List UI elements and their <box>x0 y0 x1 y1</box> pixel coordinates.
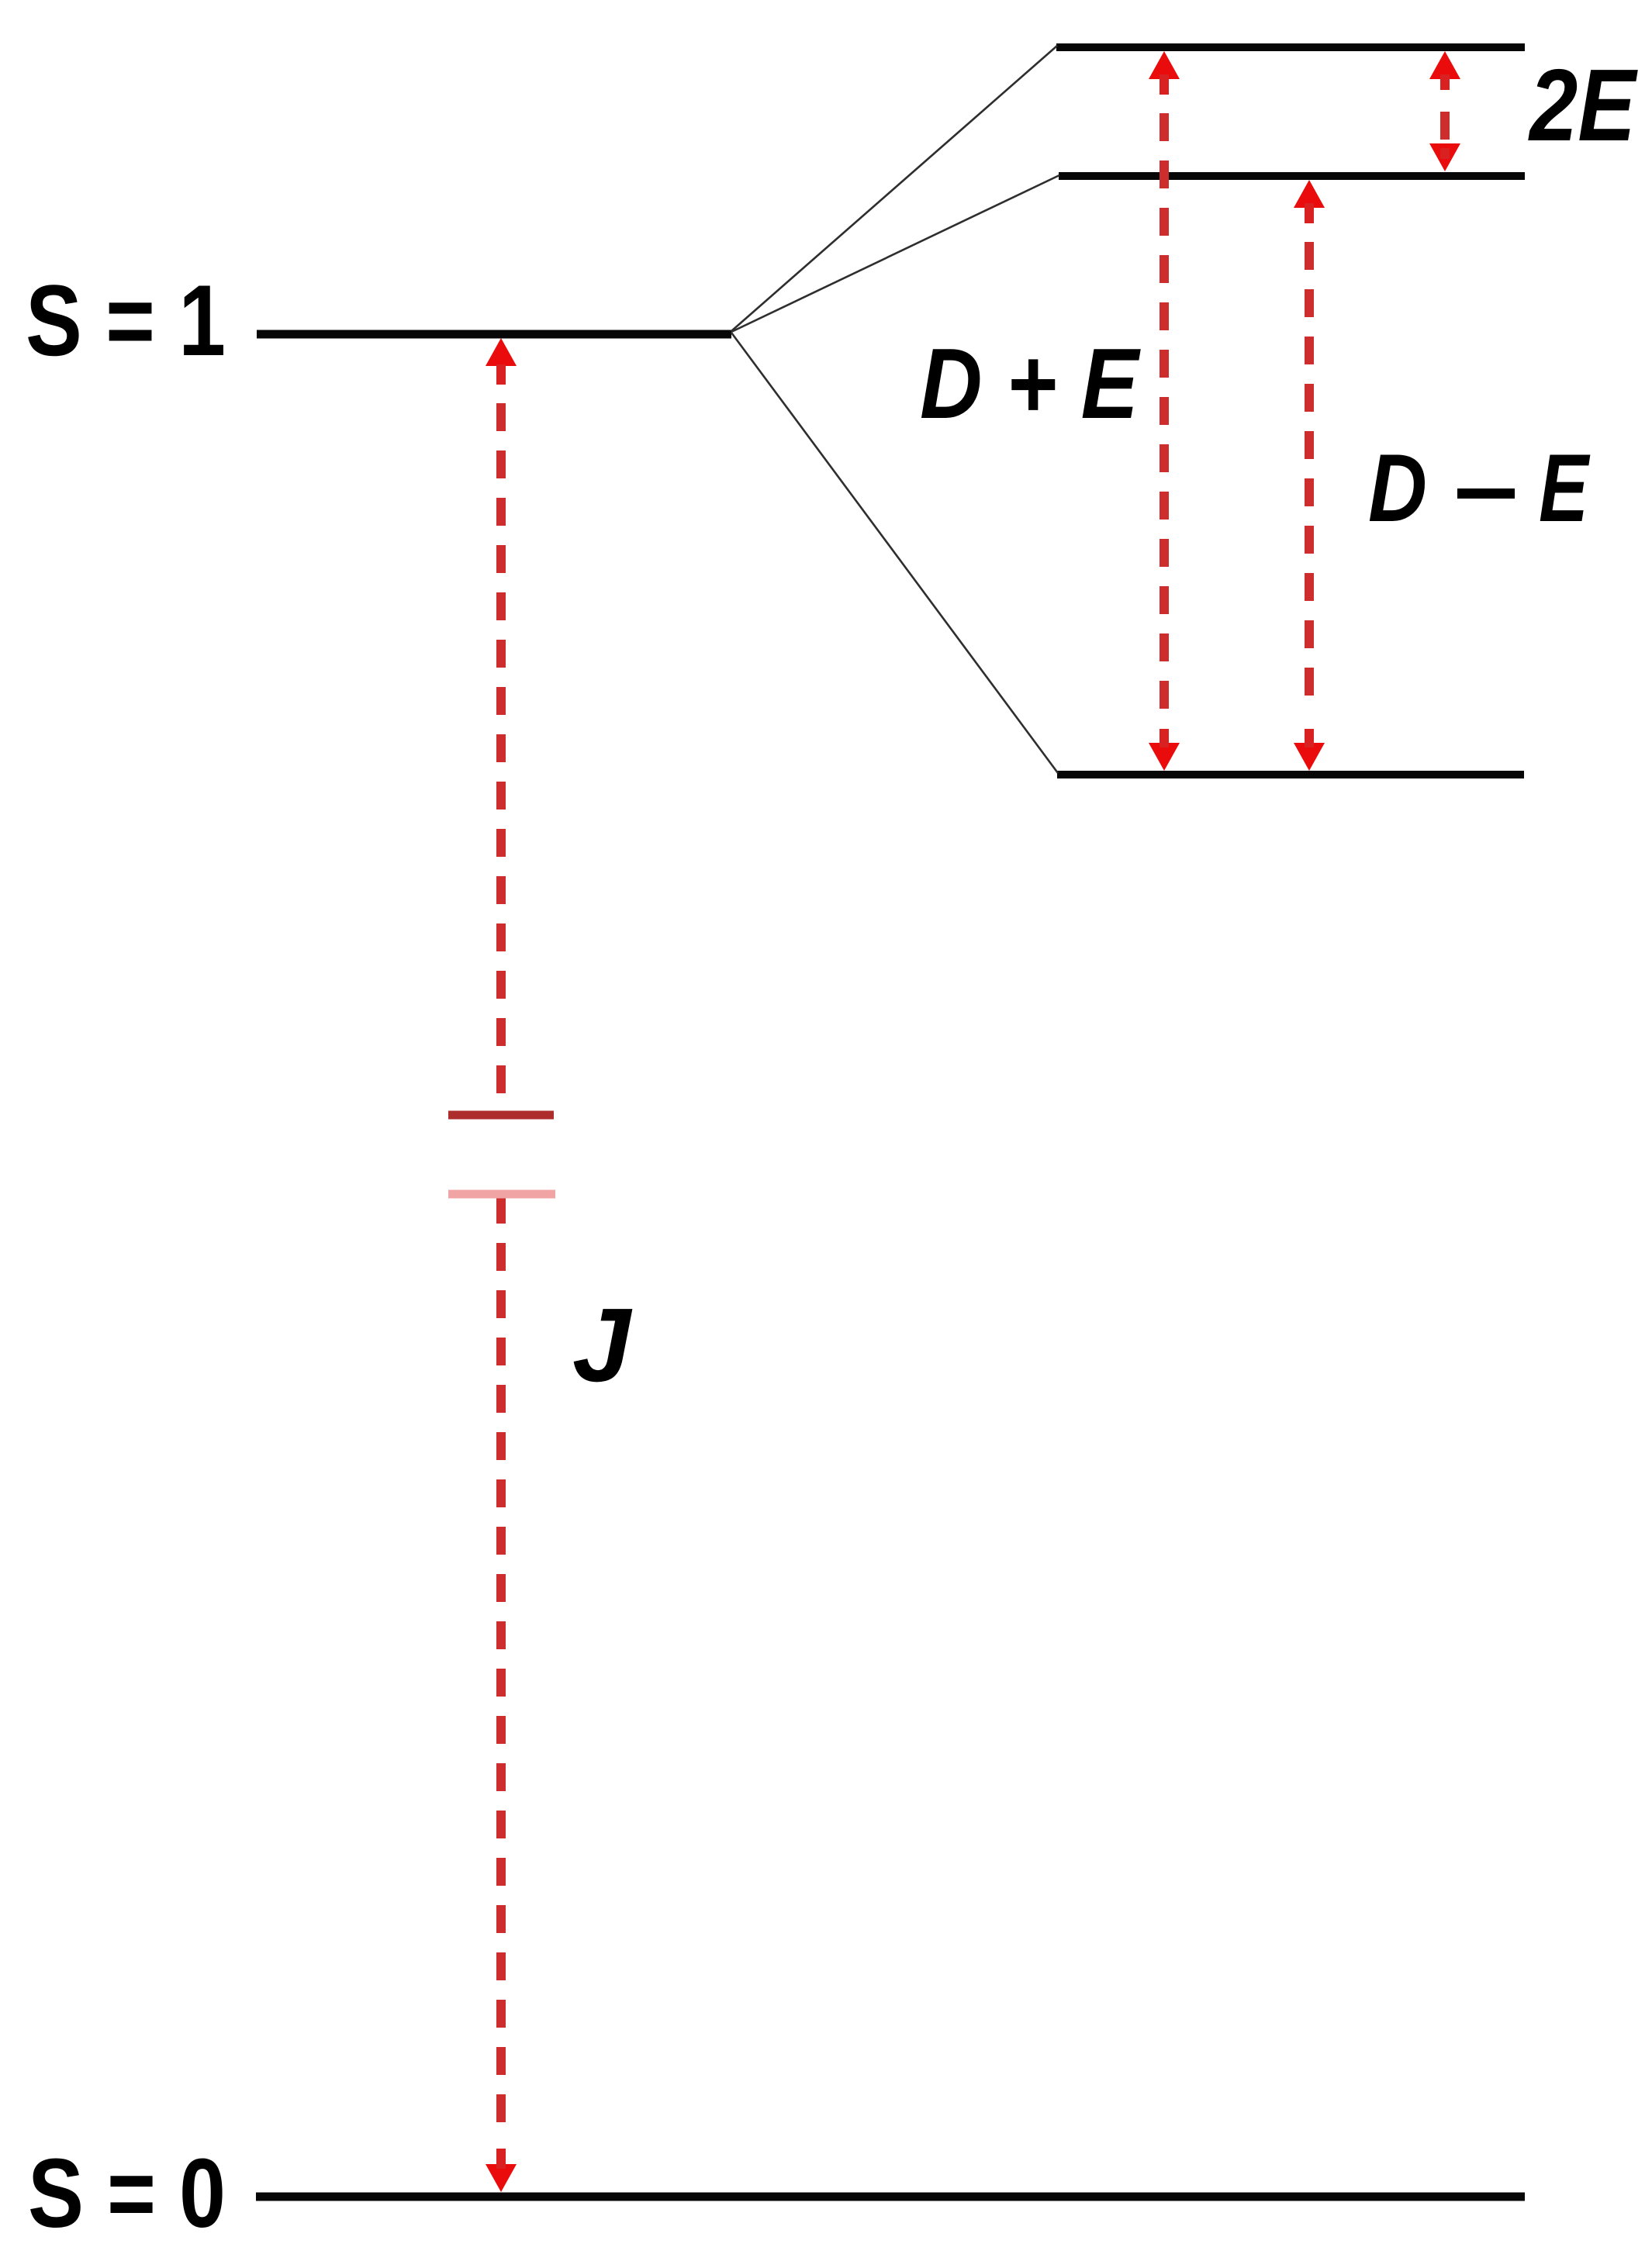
connector diagonal to second level <box>731 175 1059 332</box>
svg-text:2E: 2E <box>1527 48 1638 162</box>
axis-break tick upper (dark red) <box>448 1111 554 1120</box>
energy level Ms=+ (top right) <box>1056 43 1525 51</box>
svg-text:D: D <box>1368 435 1427 542</box>
arrow D+E (dashed red, double-headed, x=1501) <box>1149 51 1180 771</box>
label D - E : minus bar <box>1457 488 1515 499</box>
arrow J (dashed red, double-headed with axis break, x=646) <box>486 338 517 2192</box>
energy level S=0 (bottom) <box>256 2193 1525 2201</box>
connector diagonal to bottom-right level <box>731 333 1058 773</box>
energy level S=1 (left, center) <box>257 330 731 339</box>
axis-break tick lower (light pink) <box>448 1190 555 1199</box>
arrow D-E (dashed red, double-headed, x=1688) <box>1294 180 1325 771</box>
energy level Ms=- (second right) <box>1059 172 1525 180</box>
svg-text:E: E <box>1539 435 1591 542</box>
connector diagonal to top level <box>731 46 1057 331</box>
svg-text:D + E: D + E <box>920 328 1141 440</box>
svg-text:S = 1: S = 1 <box>26 264 226 377</box>
svg-text:S = 0: S = 0 <box>28 2139 226 2248</box>
arrow 2E (dashed red, double-headed, x=1863) <box>1429 51 1460 171</box>
energy level Ms=0 (bottom right) <box>1057 771 1524 778</box>
svg-text:J: J <box>572 1286 633 1403</box>
